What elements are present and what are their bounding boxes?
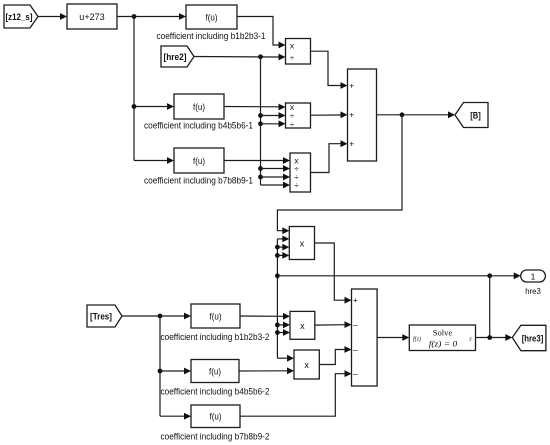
svg-text:coefficient including b4b5b6-1: coefficient including b4b5b6-1 (144, 121, 253, 131)
svg-text:÷: ÷ (290, 53, 295, 63)
svg-text:[hre2]: [hre2] (164, 52, 187, 62)
svg-text:1: 1 (531, 272, 536, 282)
svg-text:x: x (304, 360, 309, 370)
svg-text:f(z) = 0: f(z) = 0 (429, 339, 458, 349)
svg-text:–: – (353, 320, 358, 330)
svg-text:+: + (349, 139, 354, 149)
svg-text:hre3: hre3 (525, 286, 541, 296)
svg-text:f(u): f(u) (210, 412, 222, 422)
svg-text:u+273: u+273 (79, 12, 104, 22)
svg-text:+: + (349, 81, 354, 91)
svg-text:f(z): f(z) (413, 336, 421, 343)
svg-text:coefficient including b1b2b3-2: coefficient including b1b2b3-2 (161, 332, 270, 342)
svg-text:+: + (349, 110, 354, 120)
svg-text:f(u): f(u) (209, 367, 221, 377)
svg-text:[B]: [B] (470, 111, 481, 121)
svg-text:f(u): f(u) (210, 312, 222, 322)
svg-text:–: – (353, 369, 358, 379)
svg-text:[z12_s]: [z12_s] (6, 12, 33, 22)
svg-text:[hre3]: [hre3] (522, 334, 544, 344)
svg-text:–: – (353, 345, 358, 355)
svg-text:÷: ÷ (290, 119, 295, 129)
svg-text:coefficient including b4b5b6-2: coefficient including b4b5b6-2 (161, 387, 270, 397)
svg-text:f(u): f(u) (206, 13, 218, 23)
svg-text:[Tres]: [Tres] (90, 312, 112, 322)
svg-text:x: x (300, 321, 305, 331)
svg-text:f(u): f(u) (193, 102, 205, 112)
svg-text:Solve: Solve (433, 328, 453, 338)
svg-text:coefficient including b7b8b9-1: coefficient including b7b8b9-1 (144, 176, 253, 186)
svg-text:x: x (300, 239, 305, 249)
svg-text:coefficient including b7b8b9-2: coefficient including b7b8b9-2 (161, 432, 270, 442)
svg-text:f(u): f(u) (193, 156, 205, 166)
svg-text:÷: ÷ (294, 180, 299, 190)
svg-text:coefficient including b1b2b3-1: coefficient including b1b2b3-1 (157, 31, 266, 41)
svg-text:+: + (353, 295, 358, 305)
